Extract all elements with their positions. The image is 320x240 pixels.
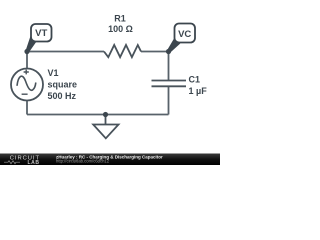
capacitor C1 bottom plate — [152, 85, 187, 87]
svg-text:http://circuitlab.com/c6dch12: http://circuitlab.com/c6dch12 — [56, 159, 110, 164]
voltage source V1 sine glyph — [17, 76, 36, 90]
capacitor C1 top plate — [152, 80, 187, 82]
svg-text:100 Ω: 100 Ω — [108, 24, 133, 34]
svg-text:R1: R1 — [114, 14, 126, 24]
wire: left vertical from VT corner to V1 top terminal — [26, 52, 28, 70]
svg-text:square: square — [48, 80, 78, 90]
wire: top rail left (node VT) from corner to R1 left lead — [27, 51, 104, 53]
svg-text:500 Hz: 500 Hz — [48, 91, 77, 101]
voltage source V1 plus sign — [24, 70, 29, 75]
svg-text:C1: C1 — [189, 75, 201, 85]
footer CircuitLab logo resistor squiggle — [4, 161, 20, 164]
footer watermark bar — [0, 154, 220, 166]
wire: left vertical from V1 bottom terminal to bottom rail — [26, 100, 28, 115]
node junction dot at ground — [103, 112, 108, 117]
ground symbol triangle — [93, 125, 118, 139]
resistor R1 zigzag body — [104, 45, 141, 57]
svg-text:LAB: LAB — [28, 160, 40, 165]
voltage source V1 minus sign — [22, 93, 28, 95]
node flag VT pointer wedge — [26, 36, 37, 53]
node flag VT rounded box — [31, 24, 52, 42]
node junction dot at VT corner — [24, 49, 29, 54]
node junction dot at VC corner — [166, 49, 171, 54]
svg-text:1 µF: 1 µF — [189, 86, 208, 96]
voltage source V1 circle — [11, 69, 43, 101]
svg-text:VC: VC — [178, 29, 191, 40]
wire: right vertical from C1 bottom plate to bottom rail — [168, 86, 170, 114]
node flag VC rounded box — [175, 24, 196, 43]
wire: top rail right from R1 right lead to node VC — [141, 51, 169, 53]
svg-text:VT: VT — [35, 28, 47, 39]
svg-text:V1: V1 — [48, 68, 59, 78]
ground symbol stem — [105, 115, 107, 125]
node flag VC pointer wedge — [167, 38, 180, 53]
wire: right vertical from node VC to C1 top plate — [168, 52, 170, 81]
wire: bottom rail from V1 to C1 with ground junction — [27, 114, 169, 116]
